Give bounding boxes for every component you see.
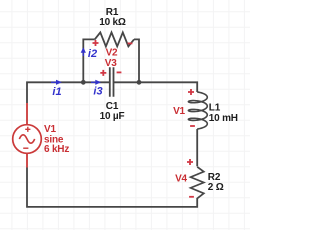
plus R2 xyxy=(187,159,193,165)
svg-text:10 mH: 10 mH xyxy=(209,113,238,124)
node junction right xyxy=(137,80,142,85)
svg-text:i3: i3 xyxy=(93,86,102,98)
voltage source V1 xyxy=(13,103,42,168)
minus V2 xyxy=(128,42,133,44)
current arrow i3 xyxy=(91,80,101,85)
svg-text:V1: V1 xyxy=(173,106,185,117)
minus V3 xyxy=(117,71,122,73)
inductor L1 xyxy=(188,92,207,129)
current arrow i2 xyxy=(81,47,86,56)
current arrow i1 xyxy=(51,80,62,85)
svg-text:V3: V3 xyxy=(105,58,117,69)
svg-text:10 µF: 10 µF xyxy=(100,111,125,122)
svg-text:V4: V4 xyxy=(175,174,187,185)
wire xyxy=(114,82,198,92)
node junction left xyxy=(81,80,86,85)
svg-text:L1: L1 xyxy=(209,103,221,114)
svg-text:6 kHz: 6 kHz xyxy=(44,144,69,155)
svg-text:i2: i2 xyxy=(88,48,97,60)
minus R2 xyxy=(189,196,194,198)
svg-text:V2: V2 xyxy=(106,47,118,58)
plus V3 xyxy=(100,70,106,76)
wire xyxy=(27,168,197,207)
capacitor C1 xyxy=(110,67,114,97)
wire xyxy=(83,39,94,82)
wire xyxy=(27,82,110,103)
wire xyxy=(134,39,139,82)
plus L1 xyxy=(188,89,194,95)
svg-text:10 kΩ: 10 kΩ xyxy=(99,17,126,28)
plus V2 xyxy=(93,40,99,46)
wire xyxy=(196,129,198,166)
resistor R2 xyxy=(191,167,204,199)
svg-text:2 Ω: 2 Ω xyxy=(208,182,224,193)
resistor R1 xyxy=(95,32,134,46)
svg-text:i1: i1 xyxy=(52,86,61,98)
minus L1 xyxy=(190,125,195,127)
